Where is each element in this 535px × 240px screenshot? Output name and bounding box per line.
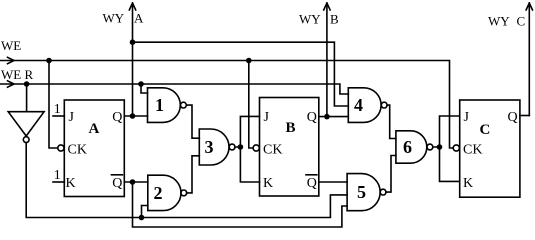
gate 2 NAND body <box>148 175 181 210</box>
svg-text:CK: CK <box>68 143 87 158</box>
gate 5 bubble <box>380 189 386 195</box>
svg-text:J: J <box>464 110 470 125</box>
gate 6 NAND body <box>396 131 427 163</box>
gate 6 bubble <box>427 144 433 150</box>
node junction G6 out <box>437 144 443 150</box>
gate 3 NAND body <box>199 129 229 165</box>
node junction WE-B <box>246 58 252 64</box>
flip-flop A K constant 1 <box>53 181 64 183</box>
flip-flop C box <box>460 100 520 197</box>
wire NOTWER branch to gate 2 <box>142 206 148 218</box>
node junction WE-A <box>46 58 52 64</box>
svg-text:C: C <box>480 122 491 138</box>
gate 1 bubble <box>181 102 187 108</box>
svg-text:Q: Q <box>112 110 122 125</box>
svg-text:J: J <box>264 110 270 125</box>
wire WY B vertical with arrow <box>326 4 328 117</box>
wire WY A horizontal to gate 4 <box>133 42 349 106</box>
flip-flop A CK bubble <box>58 145 64 151</box>
node junction QA-WYA <box>130 113 136 119</box>
svg-text:CK: CK <box>463 143 482 158</box>
inverter triangle <box>8 112 44 136</box>
flip-flop A J constant 1 <box>53 115 64 117</box>
node junction WER-inverter <box>24 81 30 87</box>
svg-text:WE: WE <box>1 38 21 53</box>
svg-text:1: 1 <box>54 102 61 117</box>
svg-text:B: B <box>286 120 296 136</box>
svg-text:C: C <box>517 14 526 29</box>
wire gate 2 output to gate 3 <box>187 156 200 193</box>
svg-text:4: 4 <box>354 95 363 115</box>
node junction QB-WYB <box>324 114 330 120</box>
flip-flop B box <box>260 98 319 197</box>
wire WER arrowhead <box>8 81 15 87</box>
gate 5 NAND body <box>347 174 380 211</box>
svg-text:5: 5 <box>357 182 366 202</box>
wire gate 1 output to gate 3 <box>186 105 199 138</box>
wire WE arrowhead <box>8 57 15 63</box>
svg-text:B: B <box>330 12 339 27</box>
svg-text:WY: WY <box>103 11 125 26</box>
wire WY A vertical with arrow <box>132 4 134 116</box>
gate 2 bubble <box>181 190 187 196</box>
wire Qbar_B to gate 5 <box>319 181 347 183</box>
wire gate 6 output to FF C J/K tie <box>433 116 460 181</box>
wire WER rail <box>0 84 348 94</box>
flip-flop C pin labels <box>463 110 518 191</box>
svg-text:Q: Q <box>508 110 518 125</box>
svg-text:2: 2 <box>154 183 163 203</box>
svg-text:Q: Q <box>307 176 317 191</box>
wire WE rail <box>0 61 452 149</box>
wire Q_A to gate 1 <box>124 115 147 117</box>
svg-text:Q: Q <box>112 176 122 191</box>
svg-text:Q: Q <box>307 110 317 125</box>
svg-text:K: K <box>66 176 76 191</box>
gate 1 NAND body <box>148 88 181 123</box>
wire Qbar_A to gate 2 <box>124 181 148 183</box>
svg-text:1: 1 <box>54 168 61 183</box>
wire WY C vertical with arrow <box>528 4 530 116</box>
svg-text:A: A <box>134 11 144 26</box>
svg-text:CK: CK <box>263 143 282 158</box>
wire WER branch to inverter <box>26 84 28 112</box>
svg-text:A: A <box>89 121 100 137</box>
node junction WER-G1 <box>138 81 144 87</box>
flip-flop A Qbar overline <box>112 174 123 176</box>
flip-flop C CK bubble <box>453 145 459 151</box>
node WY B output label <box>299 12 339 27</box>
flip-flop B pin labels <box>263 110 317 191</box>
wire WE branch to FF A clock <box>49 61 58 149</box>
svg-text:WY: WY <box>488 14 510 29</box>
svg-text:1: 1 <box>155 95 164 115</box>
wire Q_C to WY C <box>520 115 529 117</box>
node junction WYA <box>130 39 136 45</box>
gate 4 bubble <box>381 102 387 108</box>
svg-text:K: K <box>463 176 473 191</box>
node junction G3 out <box>238 144 244 150</box>
wire gate 4 output to gate 6 <box>387 105 396 138</box>
wire WE branch to FF B clock <box>249 61 253 149</box>
wire gate 5 output to gate 6 <box>386 156 396 193</box>
node WY C output label <box>488 14 525 29</box>
gate 4 NAND body <box>348 88 381 123</box>
node WE R input label <box>1 67 33 82</box>
svg-text:K: K <box>263 176 273 191</box>
node WE input label <box>1 38 21 53</box>
wire WER branch to gate 1 <box>141 84 148 93</box>
svg-text:6: 6 <box>403 137 412 157</box>
wire Qbar_A bottom rail to gate 5 <box>133 182 348 227</box>
wire Q_B to gate 4 <box>319 116 349 118</box>
svg-text:WY: WY <box>299 12 321 27</box>
svg-text:3: 3 <box>205 137 214 157</box>
flip-flop B CK bubble <box>253 145 259 151</box>
inverter bubble <box>23 137 29 143</box>
wire gate 3 output to FF B J/K tie <box>235 116 260 182</box>
node junction NOTWER-G2 <box>139 215 145 221</box>
node junction QbarA <box>130 179 136 185</box>
svg-text:WE R: WE R <box>1 67 33 82</box>
flip-flop A box <box>64 100 124 197</box>
flip-flop B Qbar overline <box>306 174 317 176</box>
flip-flop A pin labels <box>66 110 123 191</box>
node WY A output label <box>103 11 145 26</box>
gate 3 bubble <box>229 144 235 150</box>
svg-text:J: J <box>69 110 75 125</box>
wire inverter output rail (NOT WER) <box>26 143 347 218</box>
